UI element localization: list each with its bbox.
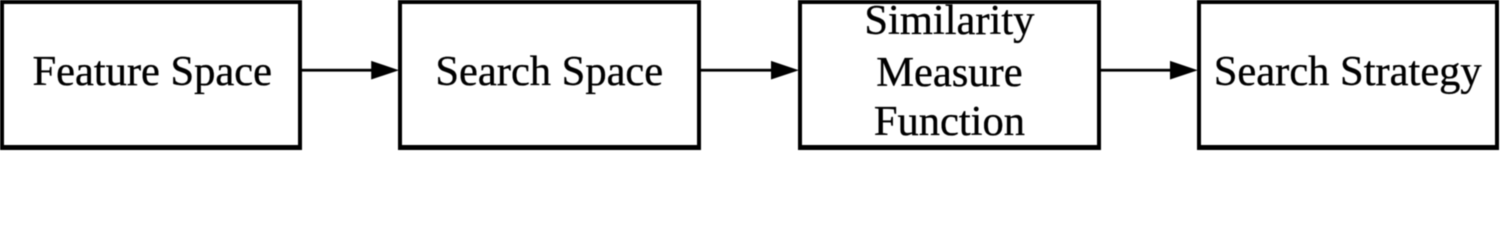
arrowhead 3 (1170, 61, 1198, 80)
arrows overlay (0, 0, 1500, 150)
label line Measure (798, 52, 1101, 95)
label Feature Space (2, 51, 304, 94)
wire shaft 3 (1098, 69, 1171, 72)
label Search Strategy (1197, 51, 1500, 94)
box Feature Space (0, 0, 302, 150)
arrow 2: Search Space to Similarity Measure Function (698, 61, 799, 80)
label Search Space (398, 51, 701, 94)
arrow 3: Similarity Measure Function to Search Strategy (1098, 61, 1198, 80)
box Similarity Measure Function (798, 0, 1101, 150)
label line Similarity (798, 0, 1101, 43)
label line Function (798, 101, 1101, 144)
arrowhead 2 (771, 61, 799, 80)
box Search Strategy (1197, 0, 1500, 150)
wire shaft 2 (698, 69, 772, 72)
arrow 1: Feature Space to Search Space (299, 61, 399, 80)
box Search Space (398, 0, 701, 150)
wire shaft 1 (299, 69, 372, 72)
arrowhead 1 (371, 61, 399, 80)
